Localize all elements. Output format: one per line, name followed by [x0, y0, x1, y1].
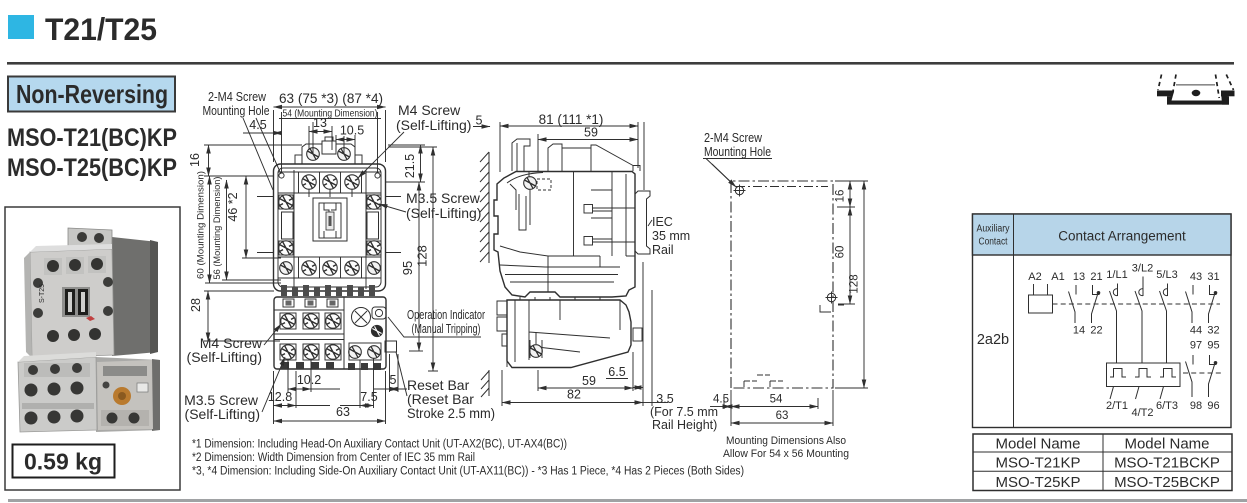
svg-text:2-M4 Screw: 2-M4 Screw — [704, 131, 763, 145]
svg-text:2a2b: 2a2b — [977, 332, 1009, 348]
svg-text:MSO-T21KP: MSO-T21KP — [995, 455, 1080, 472]
svg-text:Rail Height): Rail Height) — [652, 418, 717, 432]
svg-text:13: 13 — [313, 116, 327, 130]
svg-text:MSO-T21BCKP: MSO-T21BCKP — [1114, 455, 1220, 472]
svg-text:82: 82 — [567, 388, 581, 402]
svg-text:35 mm: 35 mm — [652, 229, 690, 243]
svg-text:44: 44 — [1190, 325, 1202, 337]
svg-text:2/T1: 2/T1 — [1106, 400, 1128, 412]
svg-text:128: 128 — [415, 245, 430, 267]
svg-text:3/L2: 3/L2 — [1132, 263, 1153, 275]
svg-text:Operation Indicator: Operation Indicator — [407, 308, 485, 322]
svg-text:96: 96 — [1207, 400, 1219, 412]
svg-text:98: 98 — [1190, 400, 1202, 412]
svg-text:21.5: 21.5 — [403, 154, 417, 178]
svg-text:4.5: 4.5 — [249, 118, 266, 132]
svg-text:MSO-T25KP: MSO-T25KP — [995, 474, 1080, 491]
svg-text:21: 21 — [1090, 271, 1102, 283]
svg-text:95: 95 — [1207, 340, 1219, 352]
svg-text:Mounting Dimensions Also: Mounting Dimensions Also — [726, 435, 846, 447]
svg-text:Non-Reversing: Non-Reversing — [16, 79, 168, 109]
svg-text:*3, *4 Dimension: Including Si: *3, *4 Dimension: Including Side-On Auxi… — [192, 466, 744, 478]
svg-text:MSO-T21(BC)KP: MSO-T21(BC)KP — [7, 124, 177, 152]
svg-text:14: 14 — [1073, 325, 1085, 337]
svg-text:*1 Dimension: Including Head-O: *1 Dimension: Including Head-On Auxiliar… — [192, 439, 567, 451]
svg-text:28: 28 — [189, 298, 203, 312]
svg-text:(Self-Lifting): (Self-Lifting) — [187, 349, 262, 365]
svg-text:60 (Mounting Dimension): 60 (Mounting Dimension) — [196, 171, 207, 279]
svg-text:63 (75 *3) (87 *4): 63 (75 *3) (87 *4) — [279, 91, 383, 106]
svg-text:(Manual Tripping): (Manual Tripping) — [412, 322, 481, 336]
svg-text:95: 95 — [400, 261, 415, 275]
svg-text:M4 Screw: M4 Screw — [398, 102, 461, 118]
svg-text:128: 128 — [849, 274, 861, 293]
svg-text:7.5: 7.5 — [360, 390, 377, 404]
svg-text:54: 54 — [770, 394, 783, 406]
svg-text:63: 63 — [336, 405, 350, 419]
svg-text:1/L1: 1/L1 — [1106, 269, 1127, 281]
svg-text:59: 59 — [584, 126, 598, 140]
svg-text:56 (Mounting Dimension): 56 (Mounting Dimension) — [212, 177, 223, 280]
svg-text:(Self-Lifting): (Self-Lifting) — [406, 205, 481, 221]
svg-text:63: 63 — [776, 410, 789, 422]
svg-text:Allow For 54 x 56 Mounting: Allow For 54 x 56 Mounting — [723, 448, 849, 460]
svg-text:3.5: 3.5 — [656, 392, 673, 406]
svg-text:2-M4 Screw: 2-M4 Screw — [208, 90, 267, 104]
svg-text:4.5: 4.5 — [713, 394, 729, 406]
svg-text:Auxiliary: Auxiliary — [977, 224, 1010, 235]
svg-text:0.59 kg: 0.59 kg — [24, 449, 102, 475]
svg-text:A2: A2 — [1028, 271, 1041, 283]
svg-text:MSO-T25BCKP: MSO-T25BCKP — [1114, 474, 1220, 491]
svg-text:10.5: 10.5 — [340, 124, 364, 138]
svg-text:13: 13 — [1073, 271, 1085, 283]
svg-text:22: 22 — [1090, 325, 1102, 337]
svg-text:60: 60 — [835, 246, 847, 259]
svg-text:5: 5 — [390, 373, 397, 387]
svg-text:IEC: IEC — [652, 215, 673, 229]
svg-text:5: 5 — [476, 114, 483, 128]
svg-text:*2 Dimension: Width Dimension: *2 Dimension: Width Dimension from Cente… — [192, 452, 475, 464]
svg-text:10.2: 10.2 — [297, 373, 321, 387]
svg-text:MSO-T25(BC)KP: MSO-T25(BC)KP — [7, 154, 177, 182]
svg-text:6/T3: 6/T3 — [1156, 400, 1178, 412]
svg-text:31: 31 — [1207, 271, 1219, 283]
svg-text:46 *2: 46 *2 — [226, 192, 240, 221]
svg-text:Contact: Contact — [979, 237, 1008, 248]
svg-text:(Self-Lifting): (Self-Lifting) — [185, 406, 260, 422]
svg-text:Mounting Hole: Mounting Hole — [704, 145, 771, 159]
svg-text:A1: A1 — [1051, 271, 1064, 283]
svg-text:(Self-Lifting): (Self-Lifting) — [396, 117, 471, 133]
svg-text:M3.5 Screw: M3.5 Screw — [406, 190, 481, 206]
svg-text:S-T25: S-T25 — [39, 284, 46, 303]
svg-text:T21/T25: T21/T25 — [45, 11, 157, 47]
svg-text:16: 16 — [835, 190, 847, 203]
svg-text:Model Name: Model Name — [995, 436, 1080, 453]
svg-text:97: 97 — [1190, 340, 1202, 352]
svg-text:54 (Mounting Dimension): 54 (Mounting Dimension) — [283, 108, 378, 120]
svg-text:Model Name: Model Name — [1124, 436, 1209, 453]
svg-text:5/L3: 5/L3 — [1156, 269, 1177, 281]
svg-text:Stroke 2.5 mm): Stroke 2.5 mm) — [407, 405, 495, 421]
svg-text:Mounting Hole: Mounting Hole — [203, 104, 270, 118]
svg-text:32: 32 — [1207, 325, 1219, 337]
svg-text:59: 59 — [582, 374, 596, 388]
svg-text:12.8: 12.8 — [268, 390, 292, 404]
svg-text:6.5: 6.5 — [608, 365, 625, 379]
svg-text:16: 16 — [188, 153, 202, 167]
svg-text:(For 7.5 mm: (For 7.5 mm — [650, 405, 718, 419]
svg-text:Contact Arrangement: Contact Arrangement — [1058, 229, 1186, 244]
svg-text:Rail: Rail — [652, 243, 674, 257]
svg-text:43: 43 — [1190, 271, 1202, 283]
svg-text:4/T2: 4/T2 — [1131, 407, 1153, 419]
